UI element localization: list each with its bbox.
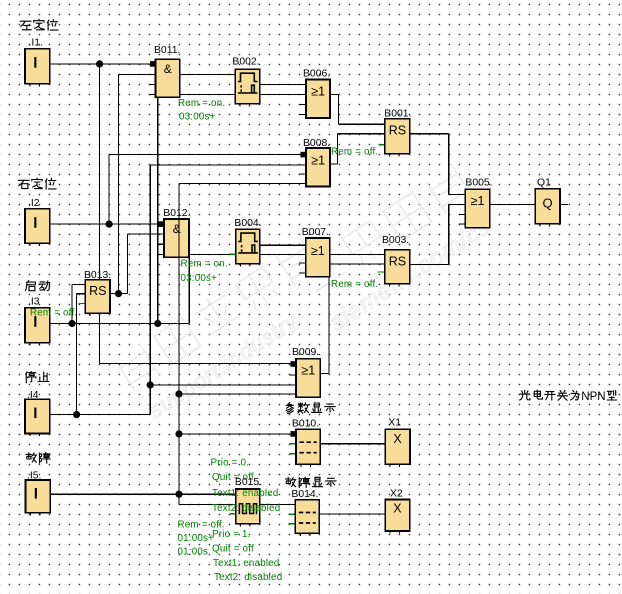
header text gu-zhang-xian-shi (fault display): [285, 477, 336, 488]
wire I5 output rail: [50, 493, 236, 495]
green Par stub B014 pin2: [289, 513, 296, 515]
wire B001 output to B005 pin1: [410, 133, 449, 135]
wire stub B006 pin4: [300, 113, 307, 115]
RS latch B013: [85, 280, 110, 314]
wire B007 output to B003 S (passes under B007 from pin2 line): [330, 253, 385, 255]
svg-text:≥1: ≥1: [471, 194, 485, 208]
svg-text:Q: Q: [542, 196, 552, 211]
wire I5 riser down to B014 pin1: [178, 494, 180, 504]
pin negation marker B012 pin1: [159, 221, 165, 227]
open connector X1: [385, 429, 410, 464]
green Par dash B003: [378, 271, 385, 273]
svg-text:Rem = on.: Rem = on.: [178, 98, 225, 109]
svg-text:03:00s+: 03:00s+: [179, 111, 216, 122]
svg-text:B013.: B013.: [84, 270, 111, 281]
green Par dash B004: [230, 253, 236, 255]
svg-text:NPN: NPN: [581, 391, 605, 403]
svg-text:B010.: B010.: [292, 418, 319, 429]
wire I5 riser segment drawn over B012: [178, 219, 180, 257]
svg-text:Text2: disabled: Text2: disabled: [212, 503, 280, 514]
header text ting-zhi (stop): [26, 371, 49, 382]
svg-text:.I2: .I2: [28, 198, 40, 209]
svg-text:.I4: .I4: [27, 390, 39, 401]
message block B010: [296, 429, 320, 464]
wire I4 rail to B009 pin3: [150, 384, 296, 386]
wire stub B011 pin3: [149, 83, 155, 85]
OR gate B009: [296, 359, 320, 397]
wire B011 output to B002 Trg: [180, 74, 236, 76]
AND gate B011: [156, 59, 180, 97]
svg-text:Rem = off.: Rem = off.: [30, 307, 77, 318]
svg-text:03:00s+: 03:00s+: [181, 273, 218, 284]
wire riser I4 rail up to junction: [149, 385, 151, 415]
wire Q1 output stub: [560, 203, 568, 205]
wire B013 output riser up to B011 pin2: [118, 75, 120, 294]
wire I5 riser to B010 pin1: [179, 433, 291, 435]
OR gate B006: [306, 80, 330, 118]
svg-text:RS: RS: [89, 284, 106, 298]
wire I1 output to junction and B011 pin1: [50, 63, 150, 65]
header text you-ding-wei (right limit): [18, 178, 56, 189]
wire B009 output riser to B003 R: [320, 373, 329, 375]
wire B010 output to X1: [320, 443, 385, 445]
green Par stub B014 pin3: [289, 523, 296, 525]
svg-text:B001.: B001.: [384, 109, 411, 120]
timer block B002 (on-delay): [235, 69, 259, 103]
svg-text:B011.: B011.: [154, 45, 180, 56]
green Par stub B010 pin2: [290, 443, 297, 445]
svg-text:≥1: ≥1: [311, 153, 325, 167]
svg-text:X: X: [393, 502, 402, 516]
node junction I4 rail: [147, 381, 154, 388]
node junction I3 rail: [154, 320, 161, 327]
node junction I3/B013 S: [68, 320, 75, 327]
svg-text:Text2: disabled: Text2: disabled: [214, 572, 282, 583]
svg-text:Q1: Q1: [537, 177, 551, 188]
svg-text:B009.: B009.: [292, 347, 319, 358]
wire I2 output to B012 pin1: [50, 223, 159, 225]
svg-text:B012.: B012.: [163, 208, 190, 219]
svg-text:01:00s+: 01:00s+: [178, 533, 215, 544]
svg-text:Rem = off.: Rem = off.: [331, 146, 378, 157]
header text gu-zhang (fault): [26, 452, 51, 463]
OR gate B007: [306, 238, 330, 277]
svg-text:RS: RS: [389, 124, 406, 138]
watermark forum logo (right-center, diagonal): [294, 164, 497, 337]
wire B008 output to B001 R: [330, 163, 337, 165]
pulse generator block B015: [236, 489, 260, 524]
wire I1 riser down behind B013 to B009 pin1 row: [99, 64, 101, 364]
wire I3 rail corner up to B004 Par / B007 pin2 (passes under B004): [188, 254, 190, 323]
node junction on I1 wire: [96, 60, 103, 67]
input block I3: [25, 308, 50, 343]
node junction on I2 wire: [106, 221, 113, 228]
node junction B013 output: [115, 290, 122, 297]
wire B005 output to Q1: [490, 203, 536, 205]
svg-text:B002.: B002.: [232, 57, 259, 68]
pin negation marker B010 pin1: [291, 431, 297, 437]
note text photoelectric switch NPN type: [520, 390, 579, 400]
timer block B004 (on-delay): [236, 229, 260, 263]
OR gate B005: [465, 189, 490, 227]
svg-text:B003.: B003.: [382, 235, 409, 246]
wire B013 output to junction: [110, 293, 119, 295]
wire B003 output to B005 pin2: [410, 263, 449, 265]
wire riser I4 to B013 R input: [76, 294, 78, 415]
wire stub B006 pin3: [300, 103, 307, 105]
svg-text:B005.: B005.: [465, 177, 492, 188]
input block I4: [25, 399, 50, 433]
wire I4 rail up to B008 pin2: [149, 165, 151, 385]
green Par dash B015: [230, 513, 236, 515]
pin negation marker B009 pin1: [291, 361, 297, 367]
wire stub B007 pin3: [299, 262, 306, 264]
svg-text:≥1: ≥1: [301, 364, 315, 378]
input block I2: [25, 209, 50, 243]
wire B013 output branch to B012 pin2: [119, 293, 128, 295]
output block Q1: [535, 189, 560, 224]
svg-text:Rem = off.: Rem = off.: [331, 279, 378, 290]
header text qi-dong (start): [26, 280, 50, 290]
header text can-shu-xian-shi (parameter display): [286, 403, 335, 414]
svg-text:≥1: ≥1: [311, 244, 325, 258]
svg-text:Quit = off: Quit = off: [212, 472, 254, 483]
svg-text:Prio = 0.: Prio = 0.: [211, 457, 250, 468]
svg-text:.I5.: .I5.: [27, 470, 41, 481]
wire stub B005 pin4: [459, 223, 465, 225]
wire stub B012 pin4: [159, 253, 165, 255]
node junction I4/B013 R: [73, 411, 80, 418]
wire stub B011 pin4: [149, 93, 155, 95]
wire stub B009 pin2: [290, 374, 297, 376]
RS latch B003: [385, 250, 410, 284]
svg-text:RS: RS: [389, 255, 406, 269]
wire B004 output to B007 pin1: [260, 244, 306, 246]
svg-text:Text1: enabled: Text1: enabled: [213, 558, 280, 569]
svg-text:≥1: ≥1: [311, 84, 325, 98]
svg-text:.I1.: .I1.: [29, 38, 43, 49]
svg-text:01:00s: 01:00s: [178, 546, 209, 557]
wire I4 output rail: [50, 414, 150, 416]
watermark siemens support.industry (center-left, diagonal): [114, 239, 342, 424]
wire stub B007 pin4: [299, 272, 306, 274]
wire I3 output rail: [50, 323, 189, 325]
wire B002 output to B006 pin1: [260, 84, 306, 86]
wire I5 riser up over B012 to B008 pin4: [178, 184, 180, 495]
wire stub B008 pin3: [300, 173, 307, 175]
svg-text:B007.: B007.: [302, 227, 329, 238]
svg-text:&: &: [164, 62, 172, 76]
wire B006 output to B001 S: [330, 93, 339, 95]
wire I5 riser to B009 pin4: [179, 393, 296, 395]
OR gate B008: [306, 148, 330, 187]
AND gate B012: [164, 219, 189, 257]
svg-text:B006.: B006.: [303, 68, 330, 79]
wire I2 riser up to B008 pin1: [108, 155, 110, 225]
node junction I5 rail: [175, 491, 182, 498]
node junction I5 riser / B009 pin4: [175, 390, 182, 397]
wire B014 output to X2: [319, 513, 385, 515]
svg-text:X: X: [393, 432, 402, 446]
node junction I5 riser / B010 pin1: [175, 430, 182, 437]
pin negation marker B011 pin1: [150, 61, 156, 67]
wire riser I3 rail up behind B011 to B006 pin2: [157, 94, 159, 323]
green Par dash B001: [378, 144, 384, 146]
header text zuo-ding-wei (left limit): [20, 19, 58, 30]
svg-text:B008.: B008.: [303, 138, 330, 149]
green Par stub B010 pin3: [290, 453, 297, 455]
svg-text:X2: X2: [390, 489, 403, 500]
green Par dash B013: [79, 302, 86, 304]
message block B014: [295, 500, 319, 533]
svg-text:X1: X1: [388, 418, 401, 429]
wire B015 output to B014 pin1 (joins): [260, 503, 296, 505]
input block I1: [25, 49, 50, 84]
svg-text:B004.: B004.: [234, 218, 261, 229]
RS latch B001: [385, 119, 410, 154]
wire stub B012 pin3: [159, 243, 165, 245]
wire stub B005 pin3: [459, 213, 465, 215]
pin negation marker B008 pin1: [301, 152, 307, 158]
open connector X2: [385, 500, 410, 531]
svg-text:B014.: B014.: [291, 489, 318, 500]
input block I5: [26, 480, 51, 513]
svg-text:Text1: enabled: Text1: enabled: [212, 488, 279, 499]
svg-text:Rem = on.: Rem = on.: [181, 259, 228, 270]
wire riser I3 to B013 S input: [71, 285, 73, 324]
svg-text:Quit = off: Quit = off: [212, 543, 254, 554]
svg-text:Prio = 1.: Prio = 1.: [212, 529, 251, 540]
svg-text:.I3: .I3: [28, 297, 40, 308]
